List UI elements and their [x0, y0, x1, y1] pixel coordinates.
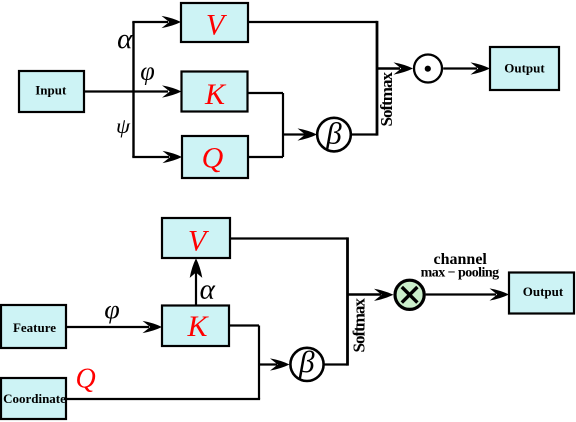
beta circle (top) [317, 118, 351, 152]
Coordinate box [1, 378, 66, 419]
cross-product circle (green) [395, 280, 424, 309]
wire Input to K [84, 90, 168, 92]
arrow junction to beta (top) [282, 133, 305, 135]
wire V to softmax bar (top) [248, 21, 377, 23]
svg-text:Output: Output [523, 284, 564, 299]
wire K out (top) [248, 92, 284, 94]
svg-text:K: K [186, 310, 209, 343]
V box (bottom) [162, 218, 230, 258]
svg-text:ψ: ψ [116, 114, 131, 138]
wire branch to V [132, 21, 168, 23]
svg-text:max − pooling: max − pooling [421, 266, 499, 281]
wire Q out (top) [248, 156, 283, 158]
softmax bar (bottom) [346, 237, 349, 365]
Input box [19, 71, 84, 112]
svg-text:φ: φ [140, 57, 155, 86]
arrow K to V (bottom) [195, 270, 197, 306]
beta circle (bottom) [290, 348, 323, 381]
arrow bar to cross-product (bottom) [348, 293, 382, 295]
wire K out (bottom) [229, 324, 259, 326]
wire V to softmax bar (bottom) [230, 237, 348, 239]
wire KQ junction vertical (top) [282, 93, 284, 157]
wire junction vertical (bottom) [258, 326, 260, 400]
arrow cross-product to Output (bottom) [426, 293, 496, 295]
svg-text:Coordinate: Coordinate [3, 391, 66, 406]
Output box (bottom) [509, 273, 574, 314]
svg-text:Q: Q [75, 364, 95, 395]
wire vertical branch at x=133.5 [132, 22, 134, 157]
svg-text:α: α [117, 23, 133, 55]
arrow dot-product to Output (top) [443, 67, 477, 69]
Q box (top) [182, 136, 248, 178]
wire branch to Q [132, 156, 169, 158]
svg-text:Q: Q [202, 141, 224, 174]
arrow Feature to K (bottom) [66, 326, 149, 328]
svg-text:β: β [325, 115, 342, 150]
svg-text:β: β [298, 344, 315, 379]
svg-text:Softmax: Softmax [377, 72, 396, 127]
wire beta to softmax bar (top) [351, 133, 377, 135]
wire Coordinate out [66, 398, 260, 400]
wire beta to softmax bar (bottom) [324, 363, 347, 365]
K box (bottom) [162, 306, 229, 347]
svg-text:Softmax: Softmax [349, 298, 368, 353]
Feature box [1, 305, 66, 348]
svg-text:Output: Output [504, 61, 545, 76]
svg-text:Feature: Feature [13, 320, 56, 335]
arrow bar to dot-product (top) [377, 67, 400, 69]
svg-text:K: K [204, 78, 227, 111]
Output box (top) [490, 47, 559, 90]
dot-product circle [414, 55, 442, 83]
K box (top) [182, 72, 248, 112]
svg-text:α: α [200, 273, 216, 305]
svg-text:φ: φ [104, 295, 120, 324]
svg-text:Input: Input [35, 83, 67, 98]
arrow junction to beta (bottom) [258, 363, 277, 365]
V box (top) [181, 3, 248, 42]
softmax bar (top) [376, 21, 379, 136]
